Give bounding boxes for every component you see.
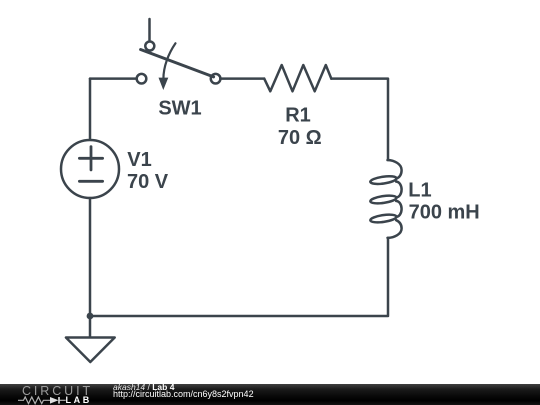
inductor L1 loop 3 — [370, 213, 397, 223]
footer bar — [0, 384, 540, 405]
wire: left vertical top (corner to V1) — [89, 79, 92, 140]
footer meta line 2: url — [113, 390, 254, 399]
inductor L1 arc 1 — [396, 182, 401, 198]
inductor L1 loop 1 — [370, 175, 397, 185]
ground symbol — [66, 338, 115, 363]
svg-text:70 Ω: 70 Ω — [278, 127, 322, 149]
wire: V1 to bottom junction — [89, 198, 92, 316]
node junction dot — [87, 313, 94, 320]
resistor R1 — [264, 65, 331, 91]
CircuitLab logo squiggle — [17, 395, 67, 405]
logo lead to LAB — [60, 400, 66, 402]
switch SW1 — [137, 42, 221, 91]
inductor L1 arc 2 — [396, 201, 401, 217]
wire: switch to resistor — [220, 77, 264, 80]
logo resistor zigzag — [18, 397, 50, 404]
svg-text:70 V: 70 V — [127, 171, 169, 193]
voltage source V1 plus sign — [79, 157, 102, 160]
switch SW1 right terminal — [211, 74, 221, 84]
footer meta line 1 — [113, 383, 174, 392]
inductor L1 loop 2 — [370, 194, 397, 204]
logo text LAB — [66, 396, 92, 405]
svg-text:700 mH: 700 mH — [409, 202, 480, 224]
switch SW1 left terminal — [137, 74, 147, 84]
wire: resistor to top-right corner and down — [331, 79, 388, 160]
logo diode arrow — [50, 397, 59, 404]
svg-text:R1: R1 — [285, 105, 311, 127]
wire: inductor to bottom-right corner — [90, 238, 388, 316]
svg-text:L1: L1 — [408, 180, 431, 202]
wire: top-left horizontal — [90, 77, 137, 80]
switch SW1 blade — [141, 50, 214, 77]
CircuitLab logo text CIRCUIT — [22, 385, 93, 398]
inductor L1 exit arc — [388, 220, 402, 238]
svg-text:SW1: SW1 — [158, 98, 201, 120]
ground stub — [89, 316, 92, 338]
voltage source V1 minus sign — [79, 180, 102, 183]
switch SW1 top terminal — [145, 42, 154, 51]
switch SW1 actuation arrow — [163, 43, 175, 79]
svg-text:V1: V1 — [127, 149, 151, 171]
wire: top stub above switch — [148, 19, 151, 40]
voltage source V1 body — [61, 140, 119, 198]
inductor L1 coil entry arc — [388, 160, 402, 179]
